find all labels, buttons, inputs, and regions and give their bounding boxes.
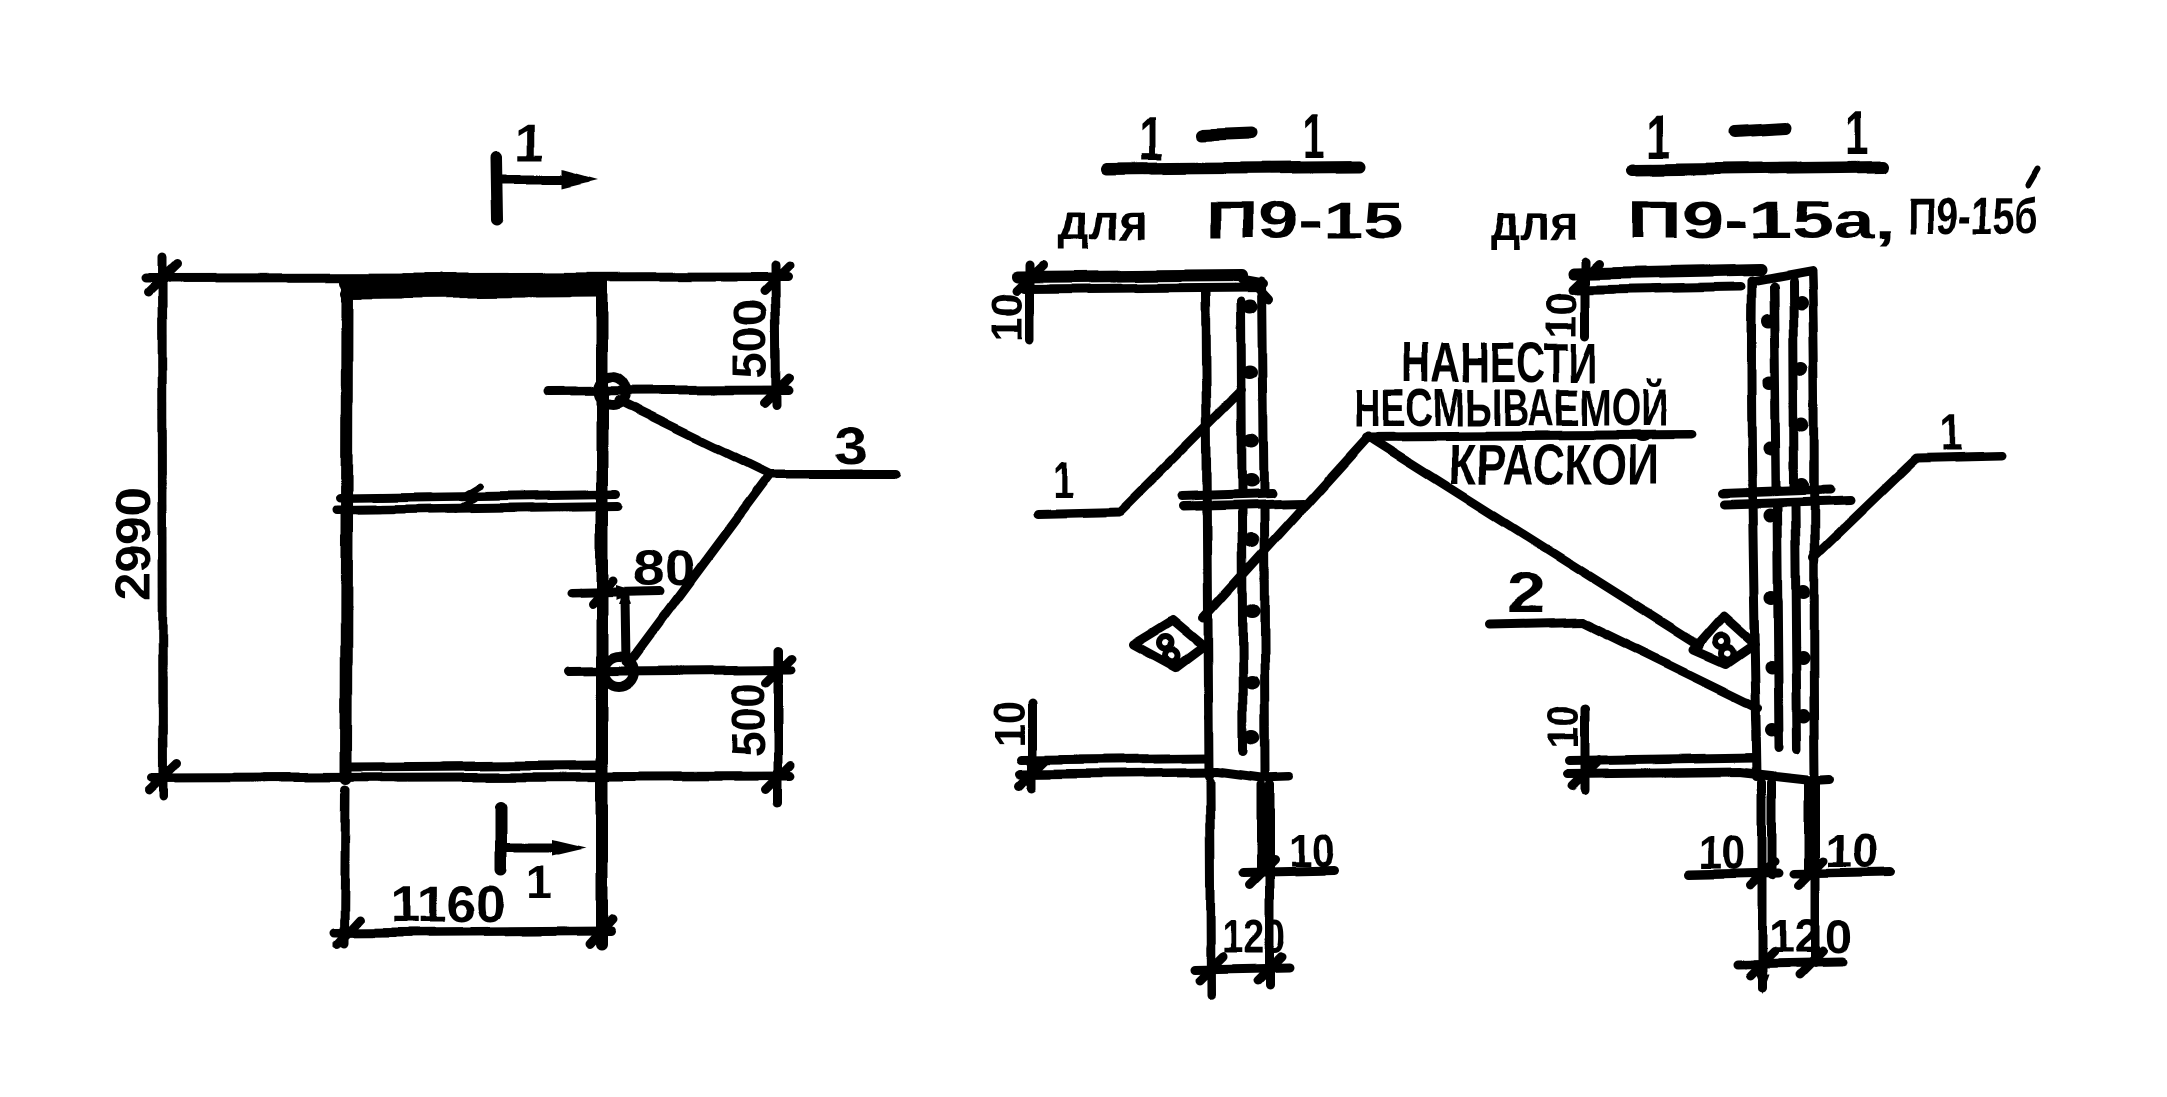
lower 500 dimension: [568, 650, 791, 803]
rebar dots (middle strip): [1242, 299, 1260, 745]
svg-text:П9-15а,: П9-15а,: [1628, 192, 1896, 250]
svg-text:для: для: [1490, 195, 1578, 251]
svg-text:П9-15: П9-15: [1205, 192, 1404, 250]
break lines across panel: [337, 486, 618, 510]
svg-text:1: 1: [1052, 452, 1073, 508]
svg-text:для: для: [1058, 194, 1148, 250]
svg-text:500: 500: [723, 299, 776, 379]
bottom edge lines (right view): [1568, 758, 1830, 780]
svg-text:10: 10: [1539, 705, 1588, 749]
bottom edge lines (middle view): [1020, 758, 1289, 778]
svg-text:2: 2: [1507, 561, 1545, 624]
svg-text:10: 10: [1826, 825, 1879, 877]
svg-text:0: 0: [1826, 911, 1852, 963]
extension lines below (middle view): [1210, 782, 1270, 995]
leader lines to pos 3: [618, 400, 896, 662]
dimension 10 (middle view, bottom-right): [1244, 825, 1335, 885]
extension lines below (right view): [1762, 782, 1816, 988]
upper lifting loop (pos 3): [598, 377, 626, 405]
note text: НАНЕСТИ НЕСМЫВАЕМОЙ КРАСКОЙ: [1353, 331, 1668, 497]
dimension 120 (right view): [1737, 910, 1852, 994]
break lines (middle strip): [1182, 494, 1303, 507]
svg-text:1: 1: [1646, 103, 1670, 172]
upper 500 dimension: [548, 265, 789, 405]
dimension 10 (right view, bottom, right of rib): [1794, 825, 1891, 886]
note underline leader: [1366, 435, 1691, 437]
top edge lines (middle view): [1018, 275, 1269, 299]
svg-text:10: 10: [983, 293, 1032, 341]
right section strip (panel rib): [1751, 271, 1815, 778]
dimension 1160: [334, 876, 613, 945]
right view subtitle: для П9-15а, П9-15б: [1490, 168, 2038, 251]
leader from note to middle flag: [1203, 436, 1368, 618]
dimension 10 (right view, bottom-left): [1539, 705, 1599, 790]
dimension 10 (middle view, bottom-left): [985, 701, 1046, 788]
rebar dots (right strip): [1761, 296, 1811, 737]
svg-text:2990: 2990: [105, 487, 161, 601]
label 2 with leader: [1490, 561, 1758, 708]
svg-text:10: 10: [1289, 825, 1335, 877]
svg-text:П9-15б: П9-15б: [1908, 188, 2038, 246]
dimension 80: [571, 542, 695, 671]
lower lifting loop (pos 3): [604, 657, 634, 687]
paint mark flag (right view): [1694, 616, 1755, 664]
svg-text:3: 3: [835, 418, 867, 476]
svg-text:500: 500: [721, 683, 774, 757]
dimension 10 (right view, top-left): [1537, 262, 1599, 338]
dimension 2990 vertical line: [105, 258, 177, 797]
extension line left for 1160: [344, 790, 345, 944]
panel outline (plan view): [345, 281, 602, 944]
svg-text:НЕСМЫВАЕМОЙ: НЕСМЫВАЕМОЙ: [1353, 377, 1668, 438]
svg-text:КРАСКОЙ: КРАСКОЙ: [1449, 432, 1659, 497]
svg-text:1: 1: [515, 115, 544, 173]
dimension 120 (middle view): [1194, 910, 1290, 980]
svg-text:1: 1: [526, 856, 552, 908]
svg-text:120: 120: [1222, 910, 1286, 962]
bottom dimension line full width: [151, 776, 791, 778]
middle section strip (panel rib): [1206, 279, 1265, 776]
svg-text:10: 10: [985, 701, 1034, 747]
break lines (right strip): [1723, 490, 1850, 505]
right view title 1 - 1: [1633, 99, 1884, 172]
section mark 1 (top): [496, 115, 598, 220]
paint mark flag (middle view): [1134, 620, 1204, 667]
section mark 1 (bottom): [501, 807, 586, 908]
svg-text:10: 10: [1699, 827, 1745, 879]
top dimension line full width: [145, 277, 788, 278]
leader 1 (right view): [1813, 404, 2002, 558]
middle view subtitle: для П9-15: [1058, 192, 1404, 250]
middle view title 1 - 1: [1106, 103, 1360, 174]
top edge lines (right view): [1573, 270, 1761, 290]
leader from note to right flag: [1368, 436, 1700, 646]
leader 1 (middle view): [1038, 390, 1242, 514]
dimension 10 (middle view, top-left): [983, 265, 1044, 341]
svg-text:1160: 1160: [391, 876, 505, 934]
dimension 10 (right view, bottom, left of rib): [1689, 827, 1779, 886]
svg-text:1: 1: [1845, 99, 1869, 168]
